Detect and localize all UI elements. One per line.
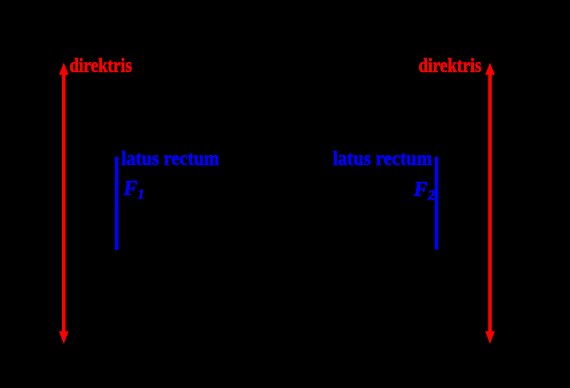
- arrowhead down (right directrix): [485, 331, 495, 344]
- svg-text:latus rectum: latus rectum: [121, 148, 219, 170]
- svg-text:direktris: direktris: [419, 55, 482, 77]
- arrowhead up (left directrix): [59, 63, 69, 75]
- arrowhead down (left directrix): [59, 331, 69, 344]
- wire: right directrix shaft: [488, 70, 492, 336]
- arrowhead up (right directrix): [485, 63, 495, 75]
- svg-text:direktris: direktris: [70, 55, 133, 77]
- latus rectum segment (left, blue): [115, 157, 119, 250]
- directrix line d2 (right, red, double arrow): [485, 63, 495, 344]
- svg-text:latus rectum: latus rectum: [333, 148, 433, 170]
- wire: left directrix shaft: [62, 70, 66, 336]
- directrix line d1 (left, red, double arrow): [59, 63, 69, 344]
- latus rectum segment (right, blue): [435, 157, 439, 250]
